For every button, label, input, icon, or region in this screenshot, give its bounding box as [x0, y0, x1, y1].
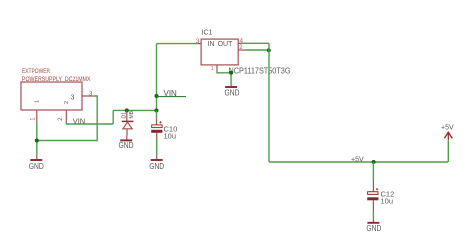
- IC1 pin 3 stub (left): [197, 43, 201, 45]
- svg-text:+5V: +5V: [351, 156, 364, 163]
- ground symbol below IC1: [230, 83, 232, 87]
- C12 plus mark: [376, 188, 378, 190]
- connector pin 3 stub: [82, 95, 93, 97]
- ground symbol below diode: [126, 136, 128, 140]
- ground symbol below C10: [156, 156, 158, 160]
- wire diode top: [126, 110, 128, 121]
- node junction dot output join: [267, 48, 271, 52]
- C10 top plate (hollow): [152, 125, 162, 128]
- ground symbol below connector: [36, 156, 38, 160]
- svg-text:D1: D1: [122, 112, 128, 119]
- svg-text:2: 2: [64, 101, 70, 104]
- wire IC1 pin4 to output rail: [245, 42, 269, 44]
- svg-text:+5V: +5V: [441, 124, 454, 131]
- svg-text:GND: GND: [29, 162, 44, 171]
- node junction dot at diode tap: [125, 108, 129, 112]
- node VIN junction dot: [155, 94, 159, 98]
- wire C12 top pin: [372, 181, 374, 192]
- C12 bottom plate (solid): [367, 197, 378, 200]
- wire stub pin2 to wire: [65, 121, 67, 124]
- wire arrow stem to rail: [447, 140, 449, 162]
- svg-text:GND: GND: [119, 141, 134, 150]
- connector pin 1 stub: [36, 110, 38, 121]
- connector pin 2 stub: [65, 110, 67, 121]
- wire IC1 pin2 to output rail: [245, 49, 269, 51]
- wire pin1 down to junction and to GND: [36, 121, 38, 156]
- svg-text:10u: 10u: [164, 132, 177, 141]
- svg-text:GND: GND: [225, 88, 240, 97]
- wire VIN: IC1 pin3 to vertical rail: [157, 43, 198, 45]
- wire VIN vertical rail x=156.5: [156, 44, 158, 111]
- svg-text:OUT: OUT: [218, 41, 234, 48]
- net label VIN underline: [157, 96, 186, 98]
- voltage regulator IC1: [196, 30, 291, 98]
- IC1 body box: [201, 39, 238, 65]
- wire pin3 loop: right, down, left to pin1: [37, 96, 97, 141]
- node junction dot C12 tap: [372, 160, 376, 164]
- wire horizontal VIN bus y=110.4: [113, 109, 156, 111]
- IC1 pin 2 stub (right bottom): [238, 49, 244, 51]
- C10 plus mark: [159, 121, 161, 123]
- svg-text:1: 1: [211, 66, 214, 72]
- wire C12 top from rail: [372, 162, 374, 181]
- capacitor C10: [149, 109, 177, 172]
- diode D1 triangle: [123, 122, 132, 129]
- wire +5V rail horizontal y=162: [269, 161, 448, 163]
- +5V arrow chevron: [444, 132, 452, 138]
- C12 top plate (hollow): [368, 192, 378, 195]
- svg-text:GND: GND: [149, 162, 164, 171]
- diode D1 cathode bar: [122, 120, 134, 122]
- svg-text:VIN: VIN: [164, 89, 178, 98]
- node junction dot connector ground: [35, 139, 39, 143]
- diode D1: [119, 108, 136, 149]
- wire C12 to ground: [372, 212, 374, 219]
- node junction dot at C10 tap: [155, 109, 159, 113]
- svg-text:IC1: IC1: [202, 30, 213, 37]
- wire diode anode down: [126, 129, 128, 136]
- svg-text:1: 1: [35, 100, 41, 103]
- svg-text:3: 3: [71, 95, 75, 102]
- wire C10 bottom pin: [156, 133, 158, 139]
- wire C10 top pin: [156, 111, 158, 119]
- wire IC1 gnd: down, right, down: [217, 71, 231, 83]
- IC1 pin 4 stub (right top): [238, 42, 244, 44]
- svg-text:10u: 10u: [381, 197, 394, 206]
- svg-text:IN: IN: [208, 41, 215, 48]
- svg-text:NCP1117ST50T3G: NCP1117ST50T3G: [229, 66, 291, 75]
- C10 bottom plate (solid): [151, 130, 162, 133]
- +5V arrow stem: [447, 133, 449, 140]
- supply symbol +5V arrow: [441, 124, 454, 162]
- svg-text:VIN: VIN: [73, 116, 86, 125]
- ground symbol below C12: [372, 219, 374, 223]
- IC1 pin 1 stub (bottom): [216, 65, 218, 71]
- connector X1 body box: [21, 82, 82, 110]
- wire C10 to ground: [156, 139, 158, 156]
- wire C12 bottom pin: [372, 200, 374, 211]
- capacitor C12: [366, 162, 394, 233]
- wire output vertical x=269: [268, 43, 270, 162]
- wire horizontal y=124 from connector pin2: [66, 123, 113, 125]
- wire vertical x=113.2: [112, 110, 114, 124]
- svg-text:GND: GND: [366, 224, 381, 233]
- svg-text:MB: MB: [129, 110, 135, 118]
- svg-text:EXTPOWER: EXTPOWER: [22, 68, 50, 75]
- node junction dot IC1 gnd: [229, 71, 233, 75]
